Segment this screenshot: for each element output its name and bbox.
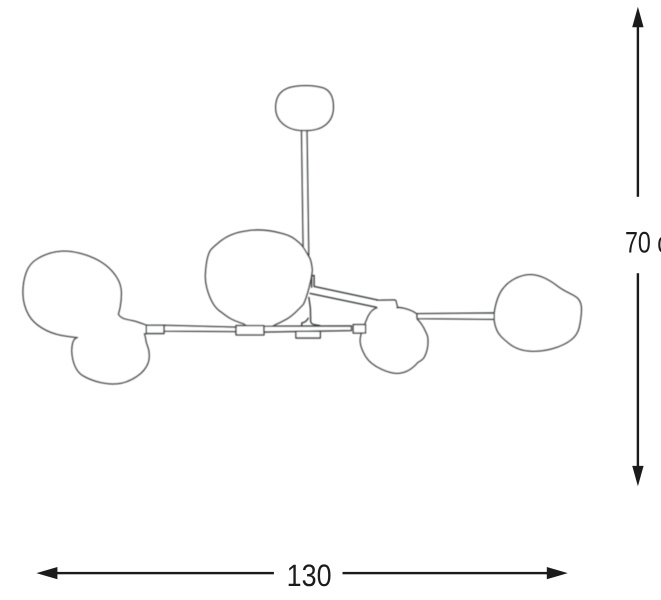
dim line vertical 70 cm [632, 7, 643, 28]
dim line horizontal 130 [36, 567, 57, 579]
shade: left double blob [23, 251, 149, 384]
wire: elbow below stem [312, 275, 315, 287]
sleeve at left rod end [146, 325, 164, 333]
sleeve centre of bar [236, 326, 264, 335]
canopy [276, 86, 334, 131]
shade: far-right blob [494, 275, 581, 352]
lower sleeve under T-joint [296, 331, 320, 338]
wire: T-flare left side [302, 318, 308, 326]
wire: rod to far-right shade [417, 313, 494, 319]
shade: central glass blob [205, 230, 312, 329]
connector cap on small shade [378, 300, 397, 309]
connector sleeve at small shade left [353, 325, 365, 334]
wire: lower vertical rod to bar [309, 298, 320, 326]
wire: stem rod from canopy [302, 129, 309, 256]
wire: left horizontal rod [164, 325, 236, 331]
wire: diagonal rod to small shade [310, 286, 377, 307]
wire: central bar [264, 326, 351, 332]
svg-text:70 cm: 70 cm [625, 226, 661, 259]
svg-text:130: 130 [287, 558, 332, 593]
shade: small centre-right blob [360, 308, 428, 374]
lamp line drawing [23, 86, 581, 384]
